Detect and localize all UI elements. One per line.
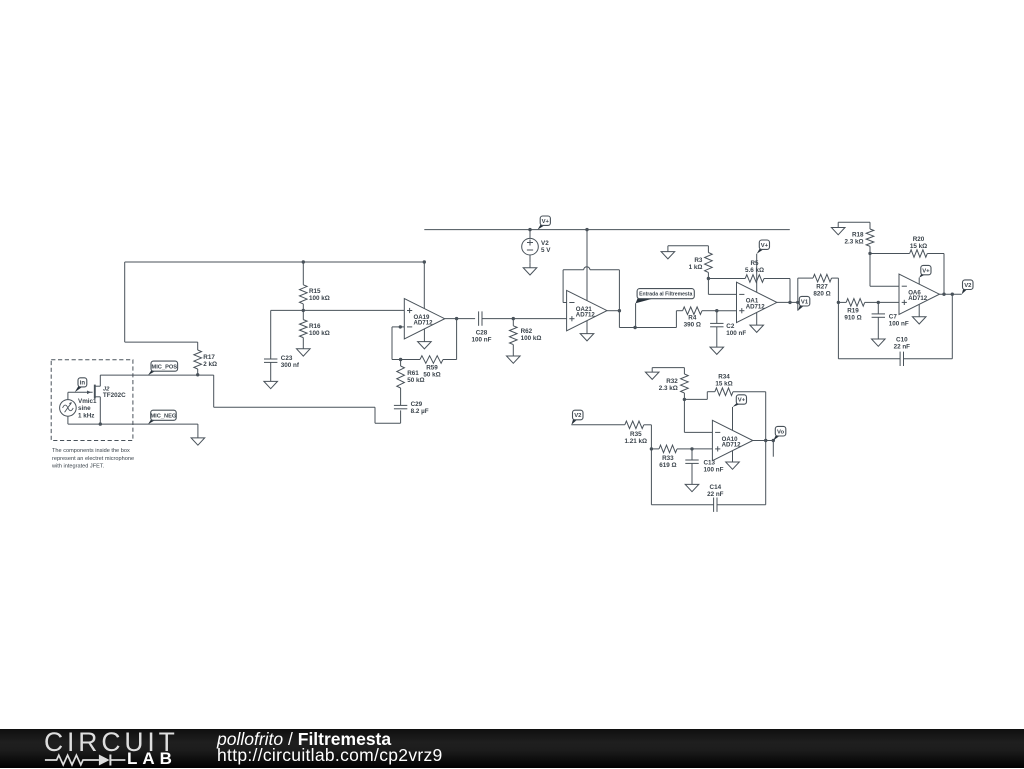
svg-text:R32: R32	[666, 378, 678, 385]
svg-text:15 kΩ: 15 kΩ	[715, 381, 732, 388]
wire R34 to out	[765, 392, 767, 441]
label C28	[472, 330, 492, 344]
label C7	[889, 313, 909, 327]
svg-text:Entrada al Filtremesta: Entrada al Filtremesta	[639, 292, 692, 298]
source Vmic1 sine	[60, 392, 93, 424]
svg-text:R4: R4	[688, 315, 697, 322]
ground R18 top	[831, 222, 870, 235]
node R32 bottom	[683, 398, 686, 401]
svg-text:Vo: Vo	[777, 429, 784, 435]
node C13 top	[690, 447, 693, 450]
node OA21 out	[618, 309, 621, 312]
node R35-R33-C14	[650, 447, 653, 450]
label R62	[521, 328, 542, 342]
node OA6 out C10	[951, 293, 954, 296]
resistor R27 820	[798, 274, 839, 310]
label J2	[103, 387, 126, 400]
svg-text:100 nF: 100 nF	[726, 330, 746, 337]
capacitor C2 100nF	[710, 311, 723, 347]
flag MIC_NEG	[148, 410, 177, 424]
resistor R5 5.6k	[708, 275, 790, 283]
op-amp OA1 AD712	[737, 282, 777, 322]
svg-text:V2: V2	[574, 413, 582, 419]
capacitor C10 22nF feedback	[838, 294, 952, 366]
node R17-MIC_POS	[196, 373, 199, 376]
resistor R15 100k	[300, 262, 308, 310]
svg-text:C14: C14	[710, 484, 722, 491]
svg-text:100 nF: 100 nF	[704, 467, 724, 474]
svg-text:15 kΩ: 15 kΩ	[910, 243, 927, 250]
wire VS- OA1 to ground	[750, 313, 764, 333]
node OA19 out	[455, 317, 458, 320]
wire VS- OA10 to ground	[726, 451, 740, 470]
node V+ at OA21 VS+ tap	[585, 228, 588, 231]
label R19	[844, 307, 861, 321]
label C2	[726, 323, 746, 337]
label C13	[704, 460, 724, 474]
svg-text:Vmic1: Vmic1	[78, 398, 97, 405]
svg-text:TF202C: TF202C	[103, 392, 126, 399]
node OA6 out R20	[942, 293, 945, 296]
op-amp OA21 AD712	[567, 290, 607, 330]
svg-text:V+: V+	[542, 219, 550, 225]
ground R32 top	[645, 368, 684, 380]
flag Vo	[773, 426, 786, 440]
node OA10 out	[764, 439, 775, 442]
resistor R62 100k	[510, 319, 518, 356]
dashed box (electret microphone)	[51, 360, 133, 441]
svg-text:100 kΩ: 100 kΩ	[309, 295, 330, 302]
node R27-R19-C10	[837, 301, 840, 304]
resistor R17 2k	[194, 342, 202, 375]
resistor R35 1.21k	[625, 421, 652, 449]
svg-text:22 nF: 22 nF	[707, 491, 724, 498]
node C7 top	[877, 301, 880, 304]
svg-text:R15: R15	[309, 288, 321, 295]
wire VS+ OA1	[756, 254, 758, 293]
label R5	[745, 260, 764, 274]
svg-text:with integrated JFET.: with integrated JFET.	[51, 464, 105, 470]
node R62 top	[512, 317, 515, 320]
label R20	[910, 236, 927, 250]
svg-text:V+: V+	[922, 268, 930, 274]
svg-text:R20: R20	[913, 236, 925, 243]
svg-text:V+: V+	[738, 398, 746, 404]
label C10	[894, 337, 911, 351]
ground below C13	[685, 484, 699, 491]
svg-text:R61: R61	[407, 370, 419, 377]
label V2 5V	[541, 240, 551, 254]
svg-text:AD712: AD712	[576, 312, 596, 319]
wire VS+ OA19	[423, 262, 425, 309]
wire left drop to R17	[125, 262, 198, 342]
op-amp OA10 AD712	[712, 420, 752, 460]
wire VS+ OA6	[918, 278, 920, 285]
label R32	[659, 378, 679, 392]
svg-text:R34: R34	[718, 374, 730, 381]
label R3	[689, 257, 703, 271]
svg-text:C2: C2	[726, 323, 735, 330]
svg-text:R16: R16	[309, 323, 321, 330]
svg-text:represent an electret micropho: represent an electret microphone	[52, 456, 134, 462]
flag in	[75, 378, 87, 392]
ground R3 top	[661, 246, 708, 259]
footer text	[217, 731, 443, 763]
svg-text:AD712: AD712	[746, 303, 766, 310]
svg-text:R17: R17	[203, 354, 215, 361]
svg-text:2.3 kΩ: 2.3 kΩ	[659, 385, 678, 392]
ground below C2	[710, 347, 724, 354]
svg-text:R59: R59	[426, 365, 438, 372]
node source-bottom	[99, 422, 102, 425]
svg-text:910 Ω: 910 Ω	[844, 314, 861, 321]
svg-text:22 nF: 22 nF	[894, 344, 911, 351]
capacitor C14 22nF feedback	[651, 441, 765, 512]
CircuitLab logo	[44, 727, 179, 758]
wire V+ rail 2 (bias rail)	[125, 261, 425, 263]
svg-text:300 nf: 300 nf	[281, 362, 300, 369]
svg-text:50 kΩ: 50 kΩ	[423, 372, 440, 379]
voltage source V2 5V	[522, 230, 539, 263]
resistor R16 100k	[300, 310, 308, 348]
node OA1 out	[788, 301, 799, 304]
wire V2 to R35	[571, 424, 624, 426]
node R3 bottom	[707, 277, 710, 280]
flag V+ (main supply)	[538, 216, 551, 230]
wire VS+ OA21	[586, 230, 588, 301]
label R33	[659, 455, 676, 469]
svg-text:2 kΩ: 2 kΩ	[203, 361, 217, 368]
svg-text:8.2 µF: 8.2 µF	[411, 408, 429, 415]
ground below C7	[872, 339, 886, 346]
svg-text:The components inside the box: The components inside the box	[52, 448, 130, 454]
svg-text:AD712: AD712	[908, 295, 928, 302]
svg-text:C7: C7	[889, 313, 898, 320]
svg-text:V2: V2	[964, 283, 972, 289]
flag V1	[798, 296, 810, 310]
svg-text:C29: C29	[411, 401, 423, 408]
wire MIC_POS routing to C29	[214, 375, 401, 423]
svg-text:C13: C13	[704, 460, 716, 467]
wire R20 to out	[943, 254, 945, 295]
node V+ at V2 tap	[528, 228, 531, 231]
svg-text:50 kΩ: 50 kΩ	[407, 377, 424, 384]
note text	[51, 448, 134, 470]
resistor R32 2.3k	[681, 368, 689, 400]
wire VS- OA19 to ground	[418, 329, 432, 349]
label R16	[309, 323, 330, 337]
resistor R33 619	[651, 445, 712, 453]
label C23	[281, 355, 300, 369]
label C29	[411, 401, 429, 415]
svg-text:sine: sine	[78, 405, 91, 412]
svg-text:2.3 kΩ: 2.3 kΩ	[844, 238, 863, 245]
svg-text:100 nF: 100 nF	[472, 337, 492, 344]
svg-text:R18: R18	[852, 231, 864, 238]
svg-text:MIC_POS: MIC_POS	[151, 364, 177, 370]
label R18	[844, 231, 864, 245]
node R18 bottom	[868, 252, 871, 255]
wire to OA10 inv	[684, 399, 712, 432]
footer bar	[0, 729, 1024, 768]
node inv pin OA19	[399, 325, 402, 328]
wire VS- OA6 to ground	[912, 304, 926, 324]
resistor R59 50k	[420, 319, 457, 364]
label R27	[813, 284, 830, 298]
resistor R61 50k	[397, 360, 405, 389]
wire OA21 out	[607, 310, 619, 312]
ground below V2	[523, 262, 537, 275]
svg-text:R19: R19	[847, 307, 859, 314]
svg-text:C28: C28	[476, 330, 488, 337]
svg-text:V2: V2	[541, 240, 549, 247]
svg-text:1.21 kΩ: 1.21 kΩ	[625, 438, 648, 445]
svg-text:R27: R27	[816, 284, 828, 291]
wire OA6 out	[939, 293, 961, 295]
label R17	[203, 354, 217, 368]
flag V2 in	[571, 410, 583, 425]
node rail2-R15	[302, 260, 305, 263]
wire Vo stub	[772, 441, 774, 457]
ground below R62	[507, 356, 521, 363]
capacitor C7 100nF	[872, 302, 885, 339]
wire OA1 out	[777, 301, 798, 303]
svg-text:1 kΩ: 1 kΩ	[689, 264, 703, 271]
svg-text:100 kΩ: 100 kΩ	[309, 330, 330, 337]
svg-text:5.6 kΩ: 5.6 kΩ	[745, 267, 764, 274]
wire OA21 feedback loop	[563, 267, 619, 311]
resistor R18 2.3k	[866, 222, 874, 253]
svg-text:in: in	[80, 381, 86, 387]
transistor J2 TF202C (n-JFET)	[87, 375, 100, 424]
svg-text:820 Ω: 820 Ω	[813, 291, 830, 298]
resistor R3 1k	[705, 246, 713, 279]
label C14	[707, 484, 724, 498]
flag V+ OA1	[757, 240, 770, 254]
resistor R19 910	[838, 299, 899, 307]
flag MIC_POS	[148, 361, 178, 375]
label R15	[309, 288, 330, 302]
wire OA21 out routing	[619, 311, 676, 328]
wire R5 to out	[789, 279, 791, 303]
svg-text:R35: R35	[630, 431, 642, 438]
node Entrada anchor	[633, 326, 636, 329]
flag Entrada al Filtremesta	[636, 289, 695, 328]
ground MIC_NEG	[191, 424, 205, 445]
capacitor C28 100nF	[479, 311, 567, 325]
svg-text:V+: V+	[761, 243, 769, 249]
label Vmic1	[78, 398, 97, 419]
node rail2-VS+ OA19	[423, 260, 426, 263]
flag V+ OA10	[733, 395, 747, 407]
svg-text:R33: R33	[662, 455, 674, 462]
capacitor C29 8.2uF	[394, 388, 407, 409]
resistor R4 390	[676, 307, 736, 315]
label R59	[423, 365, 440, 379]
wire OA19 out	[445, 318, 475, 320]
wire VS- OA21 to ground	[580, 321, 594, 341]
resistor R34 15k	[684, 388, 765, 400]
capacitor C23 300nf	[264, 310, 277, 381]
svg-text:MIC_NEG: MIC_NEG	[150, 413, 176, 419]
op-amp OA6 AD712	[899, 274, 939, 314]
label R34	[715, 374, 732, 388]
svg-text:AD712: AD712	[414, 320, 434, 327]
svg-text:AD712: AD712	[722, 442, 742, 449]
svg-text:1 kHz: 1 kHz	[78, 412, 94, 419]
svg-text:C10: C10	[896, 337, 908, 344]
svg-text:390 Ω: 390 Ω	[684, 322, 701, 329]
svg-text:V1: V1	[801, 299, 809, 305]
wire MIC_POS	[100, 374, 213, 376]
node R61 top	[399, 358, 402, 361]
wire VS+ OA10	[732, 407, 734, 430]
label R35	[625, 431, 648, 445]
svg-text:619 Ω: 619 Ω	[659, 462, 676, 469]
svg-text:5 V: 5 V	[541, 247, 551, 254]
wire to OA6 inv	[870, 254, 899, 287]
resistor R20 15k	[870, 250, 944, 258]
svg-text:R5: R5	[750, 260, 759, 267]
node R15-R16	[302, 309, 305, 312]
node C2 top	[715, 309, 718, 312]
flag V+ OA6	[919, 265, 931, 277]
svg-text:100 kΩ: 100 kΩ	[521, 335, 542, 342]
flag V2 out	[962, 280, 973, 294]
op-amp OA19 AD712	[404, 299, 444, 339]
capacitor C13 100nF	[685, 449, 698, 485]
label R4	[684, 315, 701, 329]
svg-text:C23: C23	[281, 355, 293, 362]
svg-text:R3: R3	[694, 257, 703, 264]
wire OA10 out	[753, 440, 774, 442]
wire OA19 feedback	[392, 327, 420, 360]
wire noninv bias line	[271, 309, 405, 311]
wire to OA1 inv	[708, 279, 736, 295]
svg-text:R62: R62	[521, 328, 533, 335]
wire V+ top rail	[424, 229, 790, 231]
ground below C23	[264, 381, 278, 388]
wire mic bottom	[68, 423, 198, 425]
label R61	[407, 370, 424, 384]
ground below R16	[297, 349, 311, 356]
svg-text:100 nF: 100 nF	[889, 320, 909, 327]
